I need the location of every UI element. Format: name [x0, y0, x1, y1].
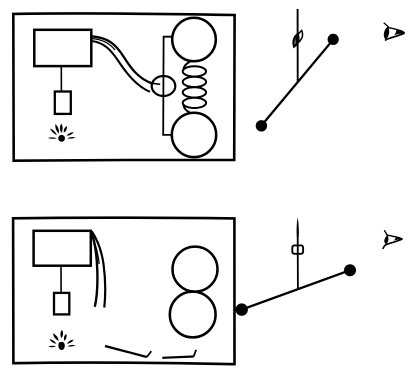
bracket [163, 37, 172, 135]
hanging weight W1 [55, 92, 71, 114]
upper mass M1 [172, 18, 216, 62]
spring S1 [183, 61, 206, 113]
lower mass M2 [172, 113, 216, 157]
torsion fiber F2 [297, 236, 299, 290]
light flash 1 [48, 123, 76, 141]
rod R1 [261, 39, 333, 126]
cord from box [60, 66, 62, 91]
mass M4 [170, 292, 216, 338]
cord from box 2 [60, 266, 62, 293]
ball A3 [236, 303, 248, 315]
hanging weight W2 [54, 293, 69, 315]
bottom panel frame [13, 218, 234, 365]
clamp on fiber [292, 245, 303, 253]
torsion fiber F2 needle top [297, 217, 299, 237]
motor box B1 [34, 30, 91, 66]
mass M3 [173, 247, 218, 292]
broken lever piece 2 [162, 357, 193, 358]
eye 2 [383, 230, 403, 249]
motor box B2 [34, 231, 91, 266]
ball A2 [328, 34, 339, 45]
light flash 2 [48, 330, 75, 350]
top panel frame [13, 13, 234, 160]
rod R2 [241, 270, 350, 310]
broken lever piece 1 [105, 346, 147, 357]
fallen belt drape [91, 231, 98, 307]
ball A4 [344, 264, 356, 276]
ball A1 [256, 120, 267, 131]
torsion fiber F1 [297, 9, 299, 82]
drive belt [92, 36, 153, 83]
twist loop on fiber [294, 34, 299, 46]
eye 1 [384, 23, 405, 41]
pulley [152, 76, 176, 96]
